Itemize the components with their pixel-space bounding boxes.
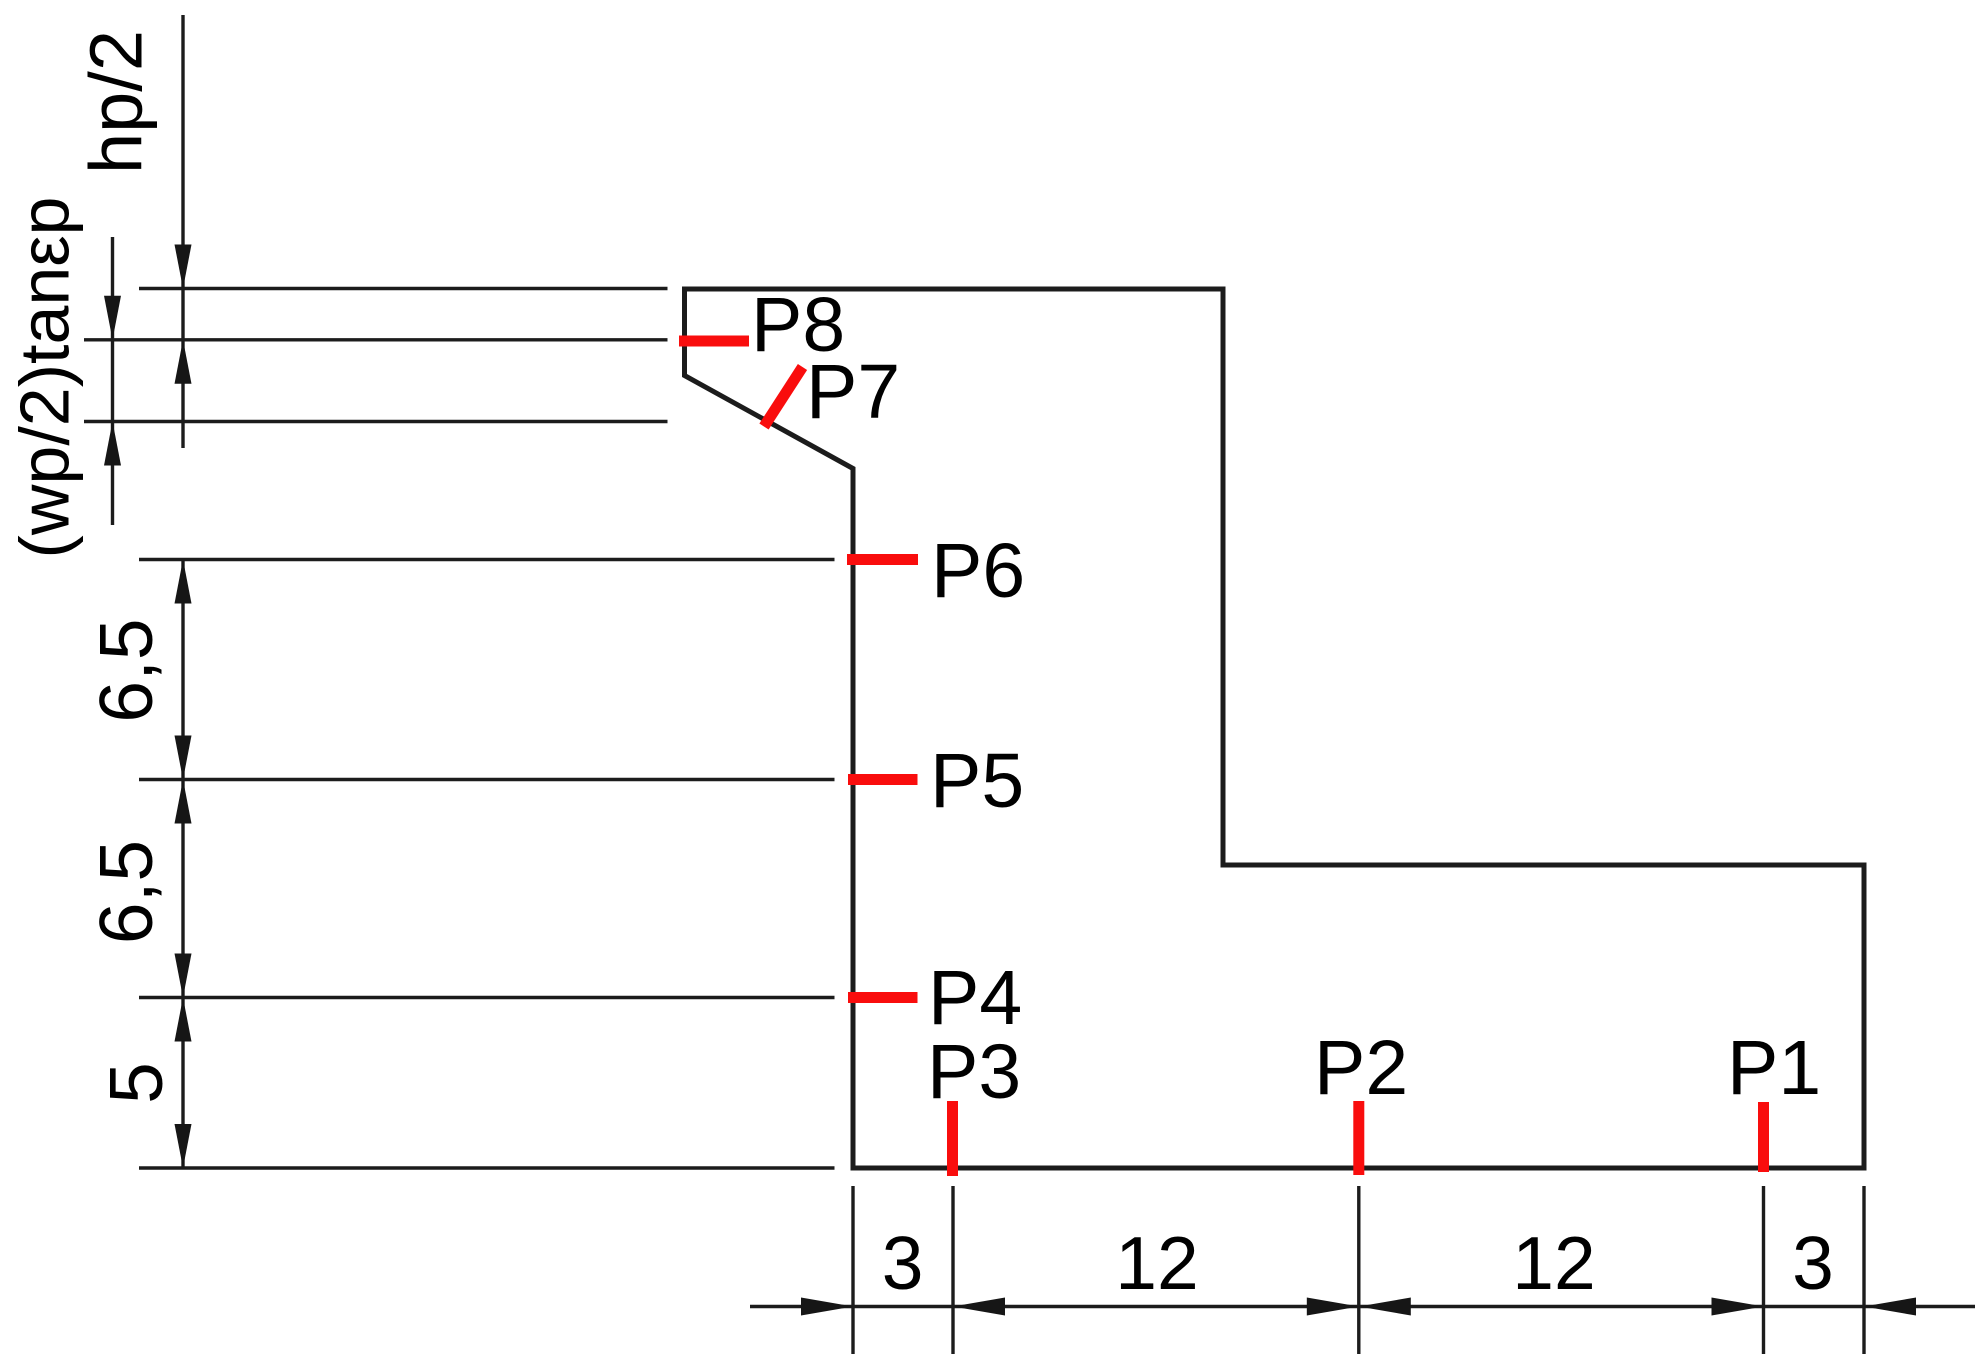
red tick P7 — [764, 367, 803, 427]
arrow down at L2 (wp/2 dim) — [104, 296, 121, 340]
arrow down at baseline — [175, 1124, 192, 1168]
arrow up at L5 — [175, 780, 192, 824]
svg-text:6,5: 6,5 — [84, 618, 168, 722]
bottom extension line at x=953 (P3) — [951, 1186, 954, 1354]
red tick P8 — [679, 336, 749, 347]
red tick P5 — [848, 774, 918, 785]
profile outline (pole shoe cross-section) — [685, 289, 1865, 1168]
left vertical dimension line 6,5/6,5/5 — [181, 560, 184, 1169]
svg-text:P1: P1 — [1727, 1025, 1821, 1111]
red tick P2 — [1353, 1101, 1364, 1175]
red tick P4 — [848, 992, 918, 1003]
svg-text:12: 12 — [1512, 1221, 1595, 1305]
red tick P6 — [847, 554, 918, 565]
svg-text:3: 3 — [882, 1221, 924, 1305]
bottom extension line at x=1358.8 (P2) — [1357, 1186, 1360, 1354]
arrow left at x=1358.8 — [1359, 1298, 1411, 1316]
svg-text:5: 5 — [94, 1062, 178, 1104]
bottom dimension line — [750, 1305, 1975, 1308]
arrow up at L4 — [175, 560, 192, 604]
svg-text:P7: P7 — [806, 349, 900, 435]
svg-text:3: 3 — [1792, 1221, 1834, 1305]
svg-text:P6: P6 — [931, 528, 1025, 614]
red tick P3 — [947, 1101, 958, 1176]
bottom extension line at x=1763.5 (P1) — [1762, 1186, 1765, 1354]
arrow down at L6 — [175, 954, 192, 998]
extension line L4 (P6 level) — [139, 558, 835, 561]
dimension line hp/2 upper tail — [181, 15, 184, 448]
svg-text:(wp/2)tanεp: (wp/2)tanεp — [6, 197, 84, 559]
red tick P1 — [1758, 1102, 1769, 1172]
svg-text:6,5: 6,5 — [84, 840, 168, 944]
baseline extension (left of profile) — [139, 1166, 835, 1169]
extension line L1 (top edge level) — [139, 287, 668, 290]
svg-text:P2: P2 — [1314, 1025, 1408, 1111]
extension line L2 (P8 level) — [84, 338, 668, 341]
extension line L3 (chamfer end level) — [84, 420, 668, 423]
arrow up at L6 — [175, 998, 192, 1042]
arrow right at x=1358.8 — [1307, 1298, 1359, 1316]
extension line L5 (P5 level) — [139, 778, 835, 781]
bottom extension line at x=853 — [851, 1186, 854, 1354]
extension line L6 (P4 level) — [139, 996, 835, 999]
arrow up at L2 (hp/2) — [175, 340, 192, 384]
arrow left at x=953 — [953, 1298, 1005, 1316]
arrow right at x=1763.5 — [1712, 1298, 1764, 1316]
arrow up at L3 (wp/2 dim) — [104, 422, 121, 466]
svg-text:12: 12 — [1115, 1221, 1198, 1305]
svg-text:P5: P5 — [930, 738, 1024, 824]
arrow down at L1 (hp/2) — [175, 245, 192, 289]
svg-text:hp/2: hp/2 — [75, 30, 158, 174]
dimension line (wp/2)tan eps upper tail — [111, 237, 114, 525]
svg-text:P3: P3 — [927, 1029, 1021, 1115]
bottom extension line at x=1864 (right edge) — [1862, 1186, 1865, 1354]
arrow left at x=1864 — [1864, 1298, 1916, 1316]
arrow down at L5 — [175, 736, 192, 780]
arrow right at x=853 — [801, 1298, 853, 1316]
